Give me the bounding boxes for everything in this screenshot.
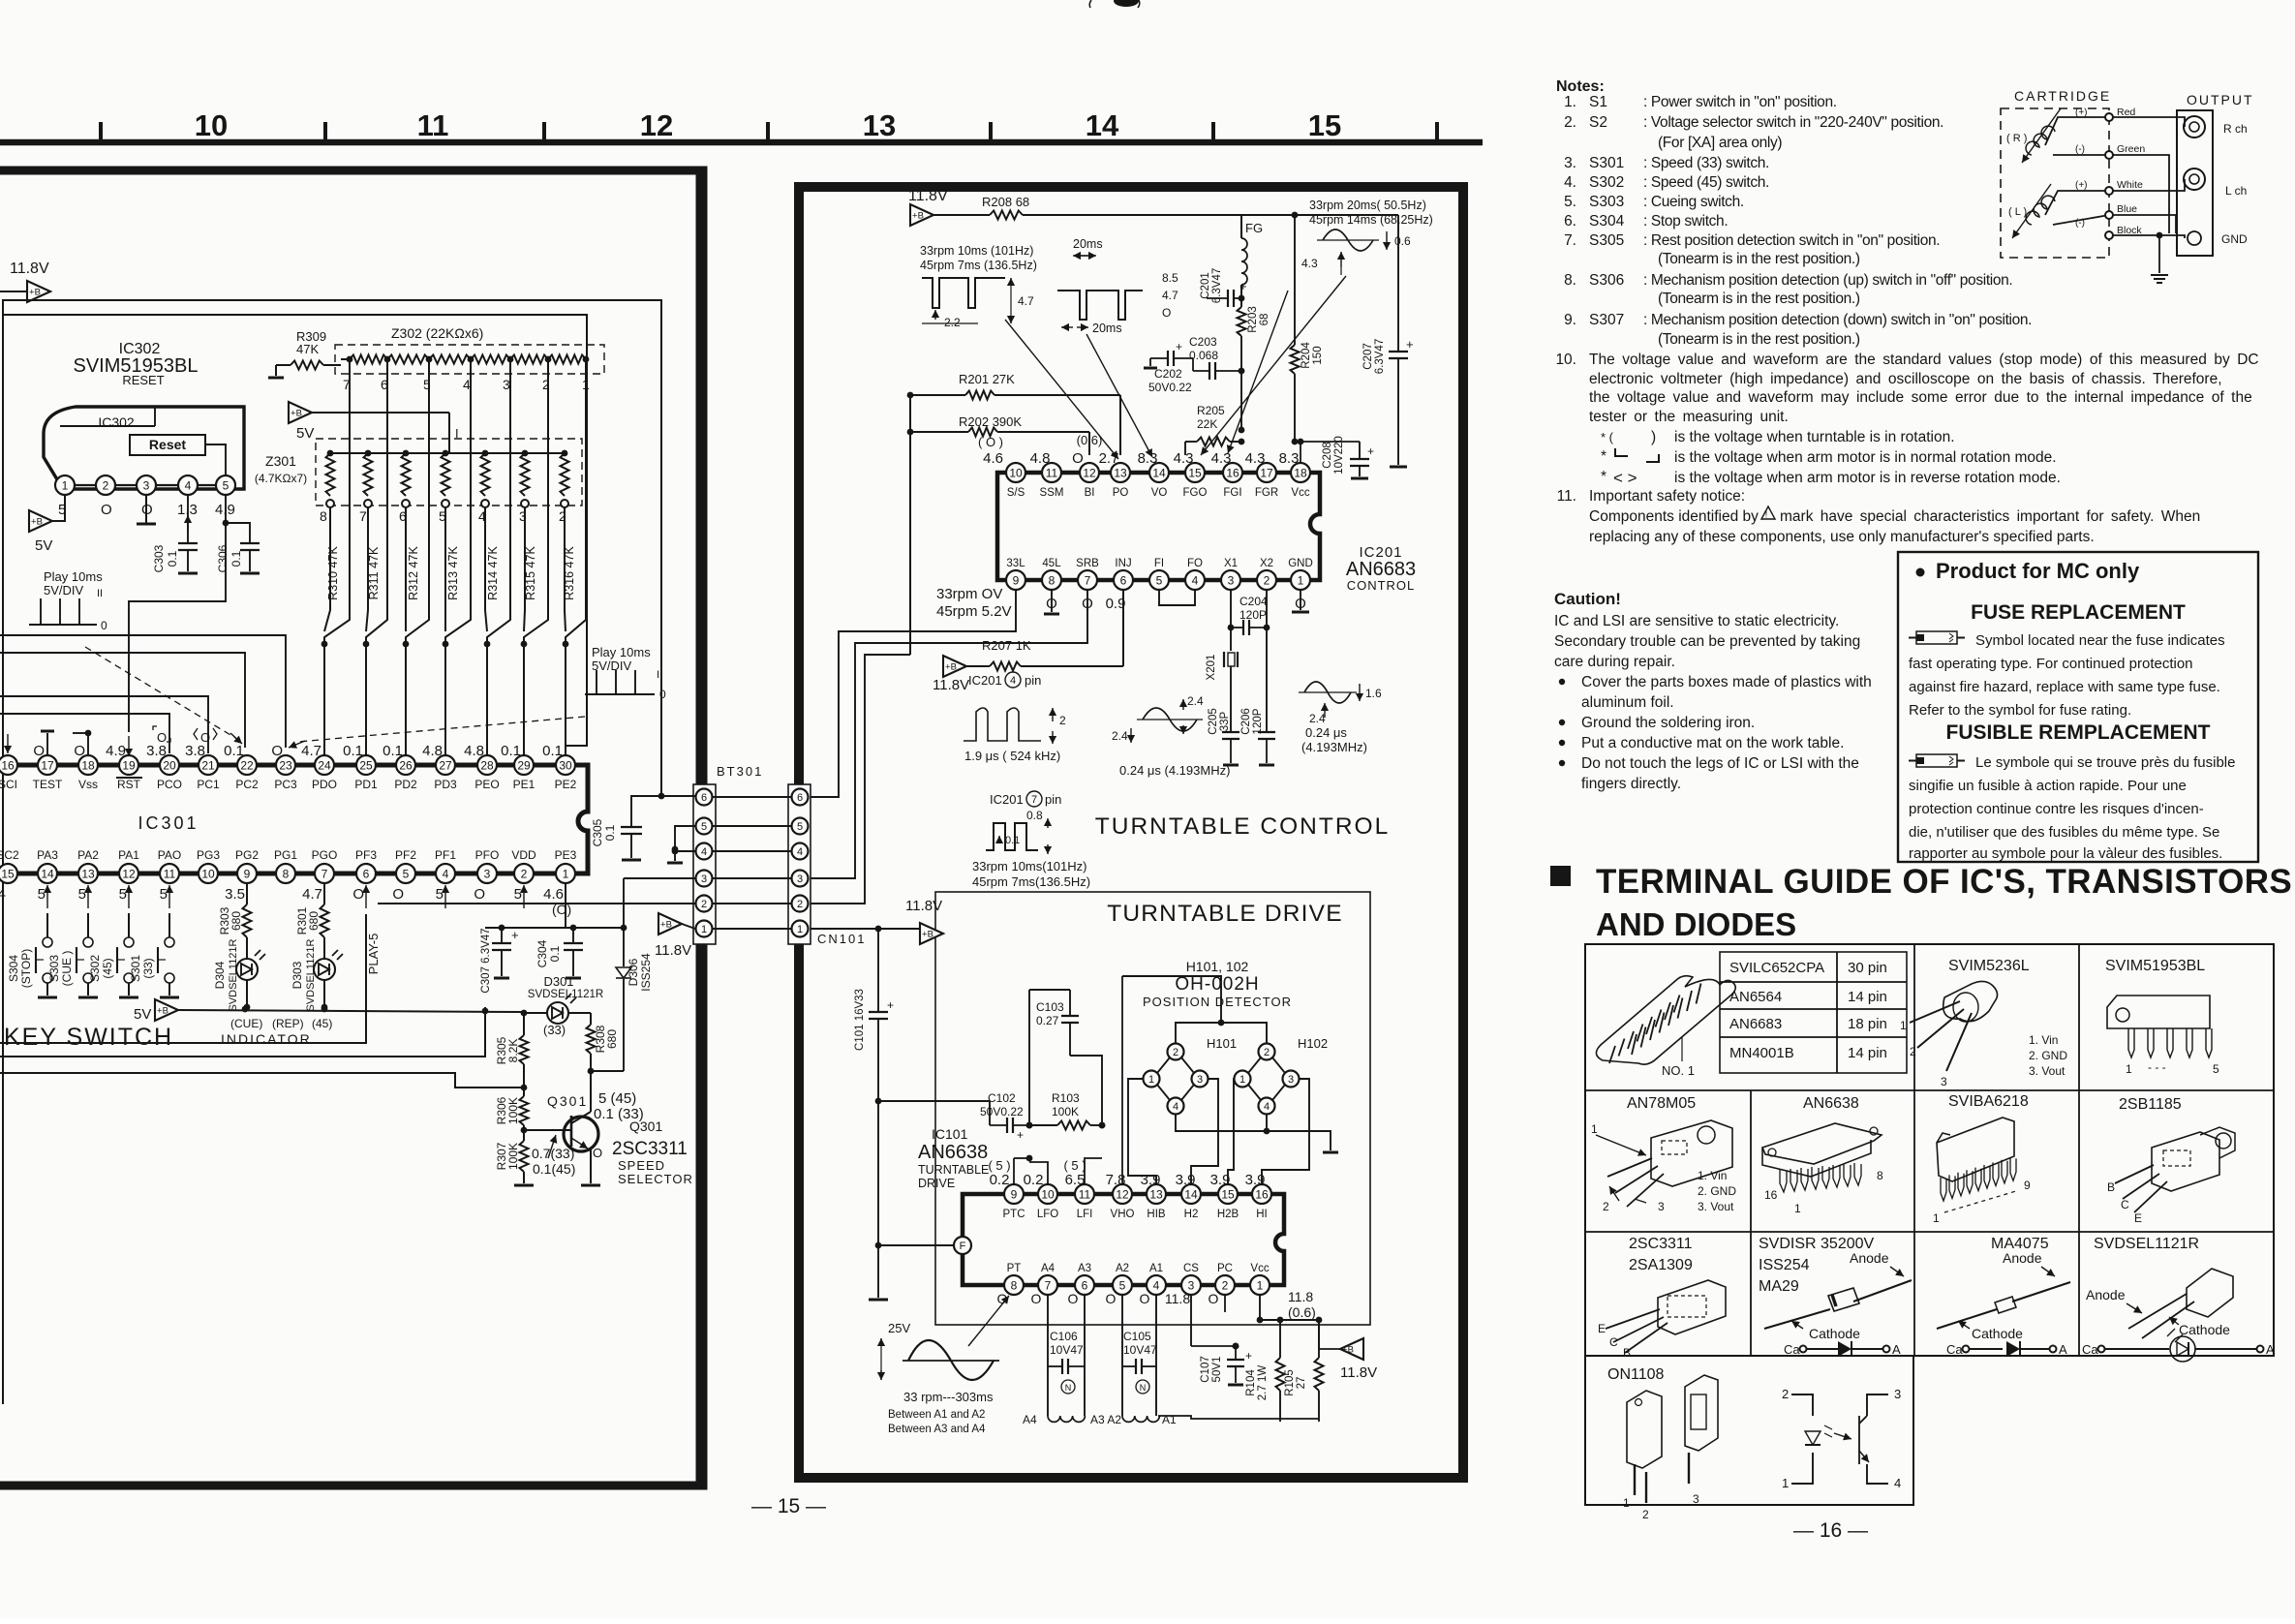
svg-text:X1: X1 [1224, 558, 1238, 569]
svg-text:16: 16 [1, 758, 15, 772]
svg-text:2.: 2. [1564, 114, 1576, 131]
svg-text:4.6: 4.6 [543, 886, 564, 903]
IC201 top values [978, 433, 1299, 467]
svg-text:A1: A1 [1149, 1263, 1163, 1274]
svg-text:ISS254: ISS254 [639, 953, 653, 992]
svg-text:33rpm 10ms(101Hz): 33rpm 10ms(101Hz) [972, 859, 1087, 873]
svg-text:H102: H102 [1298, 1036, 1328, 1051]
key wire rail 2 [0, 1007, 485, 1057]
svg-text:H101: H101 [1207, 1036, 1237, 1051]
svg-text:OUTPUT: OUTPUT [2187, 92, 2254, 107]
svg-text:A: A [1892, 1342, 1901, 1357]
switch S302 (45) [88, 913, 138, 997]
PLAY-5 wire from pin PF3 [0, 914, 381, 1043]
svg-text:The voltage value and waveform: The voltage value and waveform are the s… [1589, 352, 2259, 368]
svg-text:Between A1 and A2: Between A1 and A2 [888, 1409, 985, 1421]
svg-text:3: 3 [701, 873, 707, 885]
svg-text:11.8V: 11.8V [655, 942, 691, 959]
svg-text:24: 24 [318, 758, 331, 772]
svg-text:0.7(33): 0.7(33) [532, 1146, 574, 1161]
svg-text:2.2: 2.2 [944, 316, 961, 329]
+B 11.8V rail R208 [908, 188, 1244, 226]
svg-text:O: O [1106, 1291, 1117, 1306]
svg-text:AN6638: AN6638 [1803, 1095, 1859, 1112]
svg-text:+: + [1176, 340, 1182, 353]
svg-text:45rpm 5.2V: 45rpm 5.2V [936, 603, 1012, 620]
svg-text:R312 47K: R312 47K [407, 546, 420, 600]
svg-text:8.: 8. [1564, 272, 1576, 289]
svg-text:(Tonearm is in the rest positi: (Tonearm is in the rest position.) [1658, 251, 1860, 267]
svg-text:2: 2 [1603, 1200, 1609, 1213]
svg-text:PG2: PG2 [235, 848, 259, 862]
annotation 33rpm 10ms [920, 244, 1037, 272]
svg-text:FO: FO [1187, 558, 1203, 569]
svg-text:18 pin: 18 pin [1848, 1016, 1887, 1032]
FUSE REPLACEMENT heading [1971, 601, 2186, 624]
svg-text:PA1: PA1 [118, 848, 139, 862]
hall sensor H102 [1235, 1036, 1329, 1115]
svg-text:O: O [593, 1146, 602, 1160]
svg-text:(45): (45) [101, 958, 114, 978]
svg-text:18: 18 [1294, 466, 1307, 479]
svg-text:30: 30 [559, 758, 572, 772]
resistor R303 680 [218, 883, 252, 937]
svg-text:15: 15 [1221, 1187, 1235, 1201]
svg-text:GND: GND [2221, 232, 2248, 246]
inner frame wire [3, 300, 661, 1404]
svg-text:D303: D303 [291, 961, 304, 989]
svg-text:: Mechanism position detection: : Mechanism position detection (up) swit… [1643, 272, 2012, 289]
svg-text:AND DIODES: AND DIODES [1596, 906, 1796, 942]
svg-text:Vss: Vss [78, 778, 98, 791]
svg-text:): ) [1651, 429, 1656, 445]
svg-text:2.7 1W: 2.7 1W [1257, 1365, 1269, 1401]
svg-text:< >: < > [1613, 469, 1637, 487]
svg-text:PE1: PE1 [513, 778, 535, 791]
svg-text:E: E [2134, 1211, 2142, 1225]
+B 11.8V at BT301 pin1 [655, 913, 695, 959]
svg-text:0.1: 0.1 [548, 945, 562, 962]
svg-text:15: 15 [1, 867, 15, 880]
svg-text:B: B [1623, 1346, 1631, 1360]
svg-text:PGO: PGO [312, 848, 338, 862]
Z301 resistors with top rail [326, 450, 569, 507]
capacitor C105 10V47 [1122, 1295, 1157, 1416]
svg-text:11: 11 [164, 867, 176, 880]
resistor R301 680 [295, 883, 329, 937]
svg-text:2: 2 [103, 478, 109, 492]
svg-text:: Speed (45) switch.: : Speed (45) switch. [1643, 174, 1769, 191]
svg-text:5.: 5. [1564, 194, 1576, 210]
svg-text:(CUE): (CUE) [230, 1017, 262, 1030]
CN101 pins [792, 789, 809, 937]
svg-text:3: 3 [1693, 1492, 1699, 1506]
capacitor C101 16V33 [854, 929, 894, 1300]
svg-text:+B: +B [1342, 1345, 1354, 1356]
svg-text:6: 6 [797, 792, 803, 804]
svg-text:FGR: FGR [1255, 487, 1278, 499]
svg-text:5: 5 [1119, 1278, 1126, 1292]
svg-text:5V: 5V [35, 537, 52, 554]
svg-text:rapporter au symbole pour la v: rapporter au symbole pour la vàleur des … [1909, 845, 2222, 862]
svg-text:care during repair.: care during repair. [1554, 654, 1675, 670]
svg-text:(4.7KΩx7): (4.7KΩx7) [255, 472, 307, 485]
svg-text:0.1: 0.1 [343, 743, 363, 759]
IC302 pin values [58, 502, 235, 518]
IC302 pins 1-5 [55, 475, 235, 495]
svg-text:Components identified by: Components identified by [1589, 508, 1759, 525]
diode D306 ISS254 [616, 878, 653, 1071]
svg-text:PA3: PA3 [37, 848, 58, 862]
svg-text:Play 10ms: Play 10ms [44, 569, 103, 584]
svg-text:3.5: 3.5 [225, 886, 245, 903]
interconnect wires BT301-CN101 [713, 797, 791, 929]
IC201 bottom values [1046, 596, 1306, 612]
svg-text:Q301: Q301 [629, 1118, 662, 1134]
svg-text:(STOP): (STOP) [19, 949, 33, 988]
svg-text:*: * [1601, 469, 1606, 485]
svg-text:A4: A4 [1041, 1263, 1056, 1274]
Caution heading [1554, 590, 1621, 608]
TURNTABLE CONTROL title [1095, 813, 1390, 840]
svg-text:10: 10 [195, 108, 228, 142]
svg-text:23: 23 [279, 758, 292, 772]
AN78M05 cell [1591, 1095, 1736, 1213]
svg-text:0.1: 0.1 [501, 743, 521, 759]
svg-text:Green: Green [2117, 143, 2145, 155]
position detector title [1143, 959, 1292, 1009]
svg-text:+B: +B [922, 930, 933, 940]
33rpm OV annotation [936, 586, 1012, 620]
svg-text:5 (45): 5 (45) [598, 1090, 636, 1107]
KEY SWITCH title [4, 1024, 173, 1051]
svg-text:(CUE ): (CUE ) [60, 951, 74, 987]
svg-text:1: 1 [1623, 1496, 1630, 1510]
resistor R202 390K [910, 414, 1089, 455]
svg-text:16: 16 [1255, 1187, 1269, 1201]
svg-text:6: 6 [1082, 1278, 1088, 1292]
svg-text:10V47: 10V47 [1050, 1343, 1084, 1357]
svg-text:11.8V: 11.8V [10, 260, 49, 277]
svg-text:11.8V: 11.8V [905, 898, 942, 914]
resistor network Z301 (4.7K x 7) dashed box [255, 439, 582, 506]
svg-text:Z301: Z301 [265, 453, 296, 469]
svg-text:4: 4 [1264, 1101, 1270, 1113]
svg-text:4.7: 4.7 [301, 743, 321, 759]
svg-text:— 16 —: — 16 — [1793, 1519, 1868, 1542]
svg-text:100K: 100K [506, 1097, 520, 1124]
svg-text:R316 47K: R316 47K [563, 546, 576, 600]
svg-text:AN6683: AN6683 [1346, 559, 1416, 580]
svg-text:150: 150 [1312, 346, 1324, 364]
svg-text:11.8V: 11.8V [908, 188, 948, 204]
svg-text:47K: 47K [296, 342, 319, 356]
SVIM5236L cell [1900, 958, 2067, 1088]
svg-text:11.8V: 11.8V [933, 677, 969, 693]
IC301 top pin voltage values [33, 726, 563, 759]
svg-text:Notes:: Notes: [1556, 78, 1605, 95]
svg-text:O: O [74, 743, 85, 759]
svg-text:4: 4 [1153, 1278, 1160, 1292]
svg-text:0.27: 0.27 [1036, 1014, 1059, 1027]
svg-text:R202 390K: R202 390K [959, 414, 1022, 429]
svg-text:SVILC652CPA: SVILC652CPA [1729, 960, 1824, 976]
svg-text:PC3: PC3 [274, 778, 297, 791]
svg-text:50V0.22: 50V0.22 [1148, 381, 1192, 394]
svg-text:R314 47K: R314 47K [486, 546, 500, 600]
svg-text:3: 3 [503, 377, 510, 392]
svg-text:*: * [1601, 448, 1606, 465]
svg-text:Anode: Anode [2003, 1250, 2042, 1266]
svg-text:2: 2 [797, 899, 803, 910]
svg-text:C303: C303 [152, 544, 166, 572]
svg-text:+: + [887, 998, 894, 1012]
sine annotation 1.6 right [1299, 682, 1382, 754]
svg-text:2: 2 [1642, 1508, 1649, 1521]
svg-text:4: 4 [443, 867, 449, 880]
CARTRIDGE diagram [2001, 88, 2254, 258]
Product for MC only heading [1916, 559, 2140, 583]
svg-text:4.7: 4.7 [302, 886, 322, 903]
svg-text:21: 21 [201, 758, 215, 772]
svg-text:PE2: PE2 [555, 778, 577, 791]
svg-text:4: 4 [1894, 1476, 1901, 1490]
svg-text:HI: HI [1256, 1209, 1268, 1220]
svg-text:R203: R203 [1247, 306, 1259, 333]
cartridge wire labels [2075, 107, 2145, 236]
svg-text:AN78M05: AN78M05 [1627, 1095, 1696, 1112]
svg-text:120P: 120P [1239, 608, 1267, 622]
svg-text:II: II [97, 588, 103, 599]
svg-text:C203: C203 [1189, 335, 1217, 349]
svg-text:L ch: L ch [2225, 184, 2247, 198]
note 11 [1557, 488, 2201, 545]
svg-text:R204: R204 [1300, 342, 1312, 369]
svg-text:18: 18 [81, 758, 95, 772]
transistor Q301 2SC3311 [524, 1071, 600, 1185]
svg-text:PDO: PDO [312, 778, 337, 791]
svg-text:14: 14 [1152, 466, 1166, 479]
IC301 label [138, 813, 199, 833]
svg-text:+: + [1017, 1128, 1024, 1142]
svg-text:5: 5 [1156, 573, 1163, 587]
svg-text:27: 27 [439, 758, 452, 772]
svg-text:PD3: PD3 [434, 778, 457, 791]
svg-text:4.: 4. [1564, 174, 1576, 191]
svg-text:14: 14 [41, 867, 54, 880]
svg-text:SVIM51953BL: SVIM51953BL [2105, 958, 2205, 974]
svg-text:Vcc: Vcc [1291, 487, 1309, 499]
svg-text:GND: GND [1288, 558, 1313, 569]
svg-text:14: 14 [1184, 1187, 1198, 1201]
+B 5V key switch rail [134, 999, 527, 1023]
svg-text:IC302: IC302 [98, 414, 135, 430]
svg-text:KEY SWITCH: KEY SWITCH [4, 1024, 173, 1051]
svg-text:PG3: PG3 [197, 848, 220, 862]
svg-text:TEST: TEST [33, 778, 63, 791]
svg-text:7: 7 [1031, 794, 1037, 806]
svg-text:68: 68 [1259, 314, 1270, 326]
svg-text:C201: C201 [1200, 272, 1211, 299]
svg-text:20: 20 [163, 758, 176, 772]
svg-text:4.3: 4.3 [1301, 257, 1318, 270]
capacitor C102 50V0.22 [878, 1091, 1029, 1142]
svg-text:PF3: PF3 [355, 848, 377, 862]
fuse symbol 1 [1909, 631, 1965, 644]
svg-text:Ground the soldering iron.: Ground the soldering iron. [1581, 715, 1755, 731]
svg-text:2: 2 [1264, 573, 1270, 587]
svg-text:5: 5 [2213, 1062, 2219, 1076]
svg-text:X201: X201 [1206, 655, 1217, 681]
svg-text:8: 8 [283, 867, 290, 880]
motor coils A4-A1 [1023, 1295, 1177, 1426]
resistor R104 2.7 1W [1245, 1320, 1285, 1422]
svg-text:0.1: 0.1 [542, 743, 563, 759]
IC201 title [1346, 544, 1416, 593]
25V sine annotation [877, 1296, 1009, 1380]
svg-text:D301: D301 [543, 974, 573, 989]
svg-text:0.1: 0.1 [603, 824, 617, 841]
svg-text:100K: 100K [506, 1143, 520, 1170]
svg-text:+: + [1406, 337, 1414, 352]
svg-text:AN6638: AN6638 [918, 1142, 988, 1163]
scan blemish top [1089, 0, 1140, 8]
svg-text:FUSIBLE REMPLACEMENT: FUSIBLE REMPLACEMENT [1946, 721, 2211, 744]
svg-text:(+): (+) [2075, 180, 2088, 191]
svg-text:0.1: 0.1 [166, 550, 179, 567]
svg-text:45rpm 7ms(136.5Hz): 45rpm 7ms(136.5Hz) [972, 874, 1090, 889]
svg-text:INJ: INJ [1115, 558, 1131, 569]
svg-text:E: E [1598, 1322, 1606, 1335]
svg-text:Cathode: Cathode [1972, 1326, 2023, 1341]
svg-text:Vcc: Vcc [1250, 1263, 1269, 1274]
resistor R203 68 [1238, 306, 1271, 430]
svg-text:Ca: Ca [1946, 1342, 1963, 1357]
IC301 bottom pin labels [0, 848, 577, 862]
svg-text:Le symbole qui se trouve près: Le symbole qui se trouve près du fusible [1975, 754, 2235, 771]
svg-text:R ch: R ch [2223, 122, 2248, 136]
package pin-count table [1720, 952, 1907, 1073]
svg-text:RESET: RESET [122, 373, 164, 387]
svg-text:3: 3 [484, 867, 491, 880]
svg-text:( 5 ): ( 5 ) [1063, 1158, 1086, 1173]
svg-text:: Stop switch.: : Stop switch. [1643, 213, 1728, 230]
svg-text:8.2K: 8.2K [506, 1039, 520, 1063]
svg-text:8.3: 8.3 [1138, 450, 1158, 467]
svg-text:0.2: 0.2 [990, 1172, 1010, 1188]
svg-text:+: + [1367, 444, 1374, 458]
svg-text:5: 5 [119, 886, 127, 903]
svg-text:C305: C305 [591, 818, 604, 846]
svg-text:11.: 11. [1557, 488, 1576, 505]
IC201 bottom pin labels [1006, 558, 1312, 569]
svg-text:S306: S306 [1589, 272, 1624, 289]
bus wire to PC2 [0, 653, 245, 748]
svg-text:Refer to the symbol for fuse r: Refer to the symbol for fuse rating. [1909, 702, 2131, 719]
Q301 labels [532, 1090, 693, 1186]
svg-text:aluminum foil.: aluminum foil. [1581, 694, 1674, 711]
svg-text:SVDSEL1121R: SVDSEL1121R [528, 989, 603, 1000]
svg-text:S304: S304 [1589, 213, 1625, 230]
svg-text:S1: S1 [1589, 94, 1607, 110]
svg-text:R315 47K: R315 47K [524, 546, 537, 600]
ruler scale line [0, 139, 1483, 146]
svg-text:S304: S304 [7, 955, 20, 982]
svg-text:O: O [352, 886, 364, 903]
svg-text:B: B [2107, 1180, 2115, 1194]
svg-text:H2B: H2B [1217, 1209, 1239, 1220]
fusible text [1909, 754, 2235, 862]
IC301 bottom pin values [0, 886, 571, 917]
svg-text:20ms: 20ms [1073, 237, 1103, 251]
svg-text:Q301: Q301 [547, 1093, 588, 1109]
svg-text:R104: R104 [1245, 1369, 1257, 1396]
svg-text:AN6683: AN6683 [1729, 1016, 1782, 1032]
pulse waveform 8.5 [1057, 271, 1178, 335]
svg-text:CONTROL: CONTROL [1347, 578, 1416, 593]
svg-text:( L ): ( L ) [2008, 206, 2027, 218]
reset wire IC302 pin5 to RST [129, 523, 226, 732]
svg-text:Anode: Anode [1850, 1250, 1889, 1266]
svg-text:10: 10 [201, 867, 215, 880]
notes list items 1-9 [1564, 94, 2032, 348]
svg-text:1: 1 [1591, 1122, 1598, 1136]
svg-text:5: 5 [38, 886, 46, 903]
svg-text:1: 1 [1148, 1074, 1154, 1086]
svg-text:SVDSEL1121R: SVDSEL1121R [228, 938, 239, 1011]
svg-text:4.3: 4.3 [1174, 450, 1194, 467]
svg-text:C307 6.3V47: C307 6.3V47 [480, 928, 492, 993]
svg-text:C107: C107 [1200, 1356, 1211, 1383]
svg-text:2: 2 [1264, 1047, 1270, 1058]
IC201 top pins 10-18 [1006, 463, 1310, 482]
svg-text:4: 4 [1192, 573, 1199, 587]
Product for MC only box [1898, 552, 2258, 862]
svg-text:10: 10 [1041, 1187, 1055, 1201]
sine annotation 2.4 left [1112, 694, 1230, 778]
hall sensor wires [1122, 976, 1338, 1184]
svg-text:12: 12 [640, 108, 673, 142]
svg-text:10: 10 [1009, 466, 1023, 479]
svg-text:120P: 120P [1252, 708, 1264, 734]
33rpm-303ms note [888, 1390, 994, 1435]
svg-text:LFI: LFI [1077, 1209, 1093, 1220]
svg-text:5: 5 [514, 886, 522, 903]
svg-text:13: 13 [81, 867, 95, 880]
dashed pointer to IC301 pin 23 [289, 717, 585, 749]
svg-text:+B: +B [31, 517, 43, 528]
svg-text:45L: 45L [1042, 558, 1061, 569]
svg-text:1: 1 [1933, 1211, 1940, 1225]
svg-text:SVDSEL1121R: SVDSEL1121R [305, 938, 317, 1011]
SVDSEL1121R cell [2082, 1236, 2275, 1362]
svg-text:5: 5 [436, 886, 444, 903]
svg-text:4: 4 [463, 377, 471, 392]
svg-text:9: 9 [1013, 573, 1020, 587]
svg-text:O: O [1140, 1291, 1150, 1306]
svg-text:12: 12 [1116, 1187, 1129, 1201]
svg-text:Between A3 and A4: Between A3 and A4 [888, 1424, 986, 1435]
IC302 title [74, 341, 199, 387]
svg-text:tester or the measuring unit.: tester or the measuring unit. [1589, 409, 1789, 425]
svg-text:50V1: 50V1 [1211, 1357, 1223, 1383]
waveform IC201 pin7 [972, 791, 1090, 889]
svg-text:IC301: IC301 [138, 813, 199, 833]
svg-text:Put a conductive mat on the wo: Put a conductive mat on the work table. [1581, 735, 1844, 751]
svg-text:22K: 22K [1197, 417, 1217, 431]
svg-text:CS: CS [1183, 1263, 1199, 1274]
svg-text:PD2: PD2 [394, 778, 417, 791]
